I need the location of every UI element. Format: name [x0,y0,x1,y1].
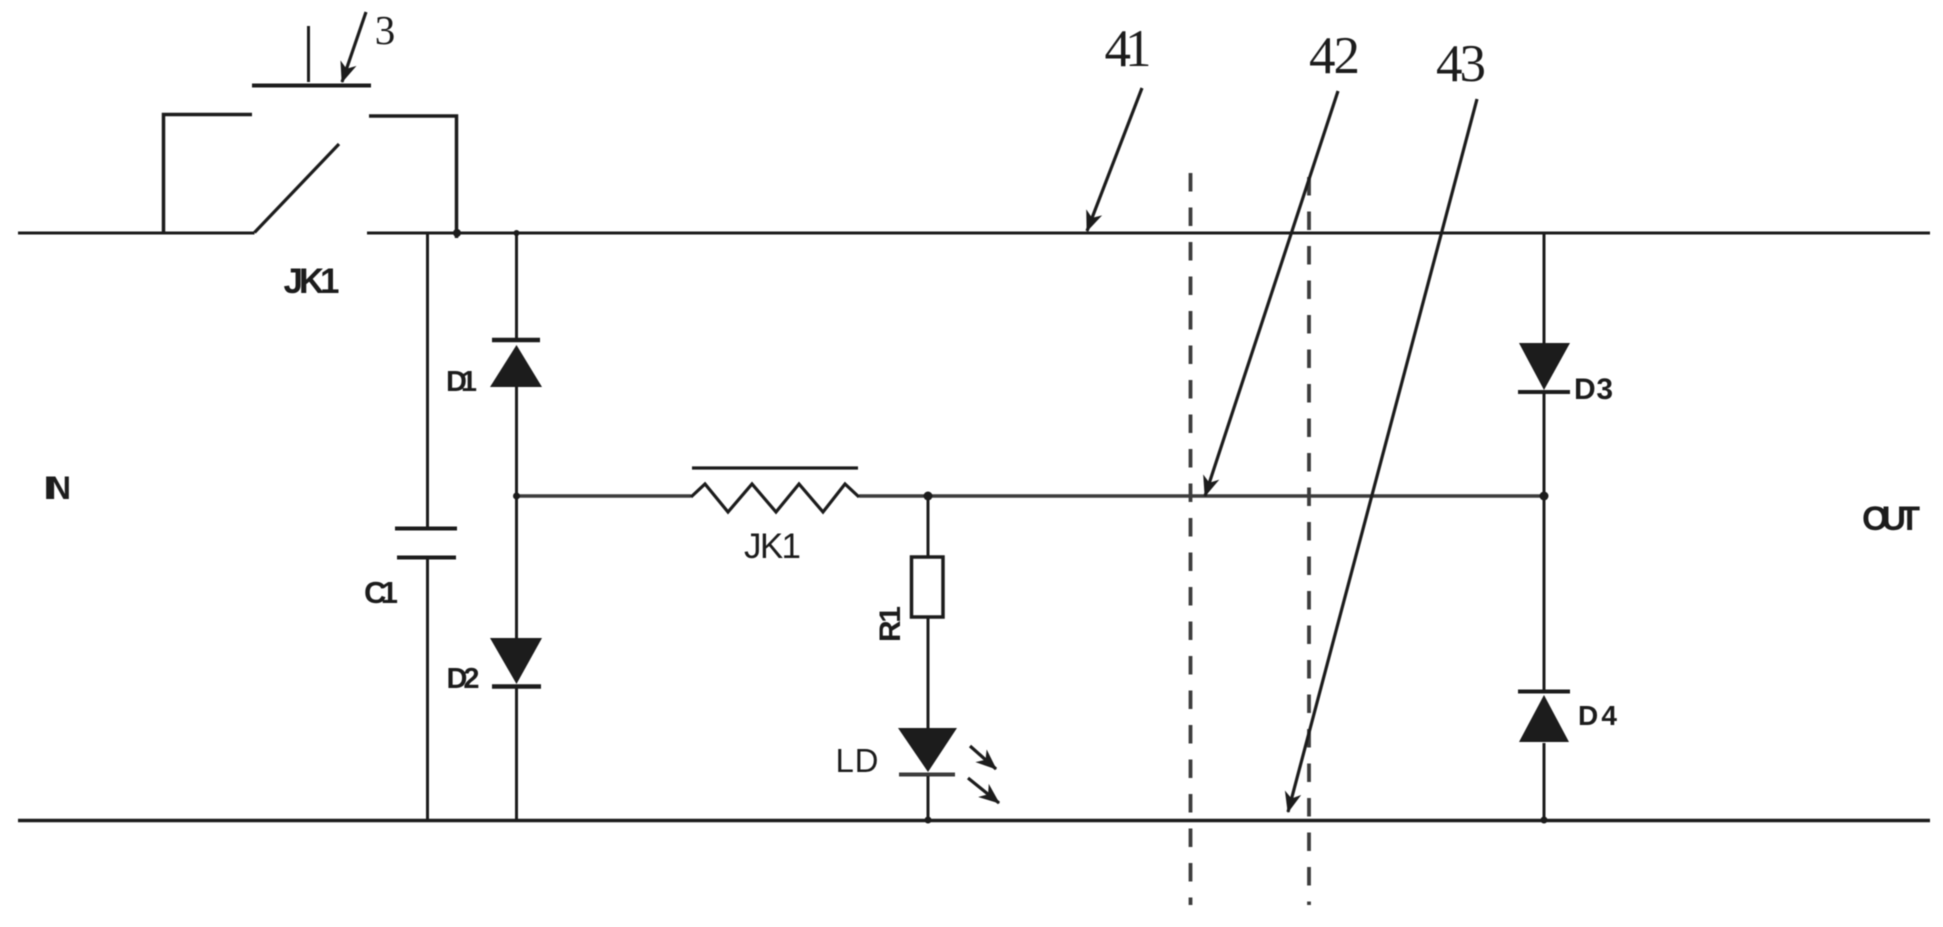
svg-text:3: 3 [375,7,396,53]
svg-text:LD: LD [836,742,879,779]
svg-text:D2: D2 [447,663,480,695]
svg-text:41: 41 [1105,20,1152,78]
svg-text:42: 42 [1309,27,1360,85]
svg-text:D1: D1 [446,366,477,398]
svg-text:JK1: JK1 [744,527,801,566]
svg-text:43: 43 [1436,35,1486,93]
svg-text:JK1: JK1 [284,262,340,301]
svg-text:D4: D4 [1578,700,1617,731]
svg-text:IN: IN [44,470,71,506]
svg-text:OUT: OUT [1862,500,1920,538]
svg-text:D3: D3 [1574,373,1613,406]
svg-text:R1: R1 [874,606,907,642]
svg-text:C1: C1 [364,575,398,610]
